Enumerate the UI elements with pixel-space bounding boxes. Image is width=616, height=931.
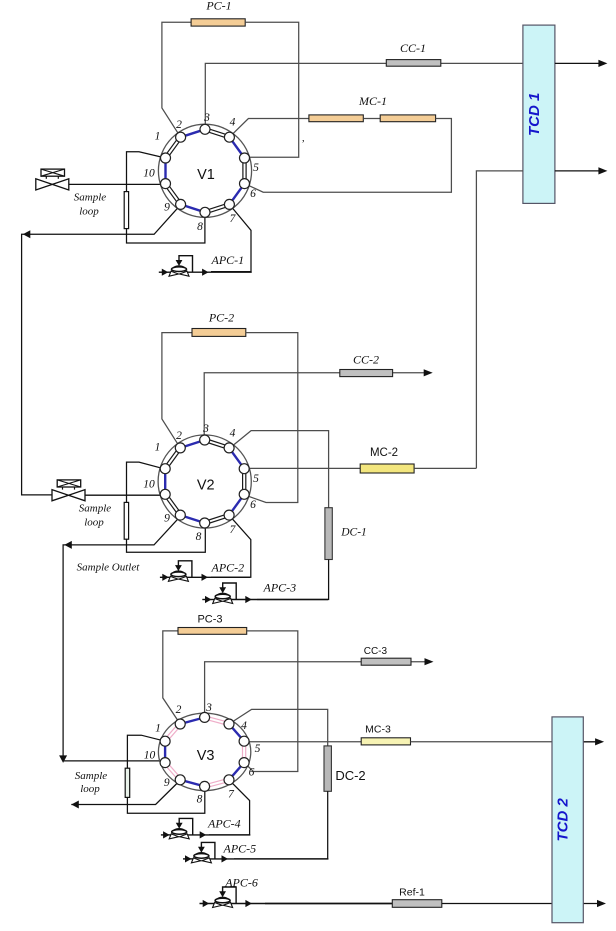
- valve V1 port 7: [224, 199, 234, 209]
- regulator APC-3 label: [263, 581, 297, 595]
- valve V2 pin number 5: [253, 473, 259, 485]
- valve V3 pin number 2: [176, 704, 182, 716]
- regulator APC-1 label: [211, 253, 245, 267]
- valve V3 pin number 8: [197, 794, 203, 806]
- regulator APC-2 outlet wire: [184, 574, 250, 581]
- valve V2 rotor groove 7-8: [204, 514, 229, 525]
- regulator APC-5 outlet wire: [207, 855, 328, 862]
- valve V1 pin number 10: [143, 168, 155, 180]
- wire port 1 to sample loop 2: [127, 462, 166, 502]
- sample loop 3 tube: [125, 768, 130, 797]
- svg-text:MC-3: MC-3: [365, 724, 391, 736]
- wire sample loop 3 to port 8: [127, 787, 204, 814]
- label PC-3: [197, 614, 222, 626]
- regulator APC-1 feedback loop: [176, 256, 193, 273]
- svg-text:10: 10: [144, 750, 156, 762]
- valve V1 label: [197, 167, 215, 183]
- arrow on V3 outlet: [71, 801, 79, 809]
- column DC-2: [324, 746, 331, 791]
- valve V2 pin number 2: [176, 430, 182, 442]
- valve V3 rotor groove 1-2: [164, 723, 182, 742]
- regulator APC-6 feedback loop: [219, 887, 236, 904]
- label Sample Outlet: [77, 562, 141, 574]
- wire APC-6 to Ref-1: [265, 903, 392, 905]
- regulator APC-3 inlet wire: [202, 596, 216, 603]
- wire MC-2 line (port 5 to riser): [246, 467, 360, 469]
- arrow on V1 outlet: [23, 230, 31, 238]
- valve V2 label: [197, 478, 215, 494]
- label TCD1: [526, 93, 543, 136]
- svg-text:CC-3: CC-3: [364, 646, 388, 657]
- valve V2 rotor groove 10-1: [164, 469, 166, 495]
- valve V1 pin number 4: [230, 117, 236, 129]
- wire sample loop 1 to port 8: [127, 213, 205, 244]
- label MC-3: [365, 724, 391, 736]
- valve V3 pin number 9: [164, 777, 170, 789]
- svg-text:Sample Outlet: Sample Outlet: [77, 562, 141, 574]
- svg-text:6: 6: [249, 767, 255, 779]
- svg-text:5: 5: [253, 473, 259, 485]
- svg-text:6: 6: [250, 188, 256, 200]
- valve V2 port 5: [239, 464, 249, 474]
- regulator APC-6 inlet wire: [200, 900, 217, 907]
- label DC-1: [340, 527, 367, 539]
- valve V2 pin number 8: [196, 531, 202, 543]
- regulator APC-3 feedback loop: [219, 583, 236, 600]
- svg-text:2: 2: [176, 704, 182, 716]
- valve V1 rotor groove 9-10: [164, 183, 182, 206]
- valve V3 port 8: [200, 781, 210, 791]
- column DC-1: [325, 508, 332, 560]
- arrow TCD1 bottom outlet: [598, 167, 607, 174]
- valve V3 rotor groove 5-6: [243, 741, 246, 762]
- wire MC-3 to TCD2: [411, 741, 553, 743]
- svg-text:Ref-1: Ref-1: [399, 887, 425, 899]
- valve V2 rotor groove 3-4: [204, 439, 229, 450]
- valve V3 rotor groove 6-7: [229, 763, 244, 780]
- wire port 10 to sample valve 1: [69, 183, 166, 185]
- label sample loop 3 line1: [75, 770, 108, 782]
- valve V3 rotor groove 4-5: [229, 724, 244, 741]
- regulator APC-5 inlet wire: [183, 855, 195, 862]
- svg-text:Sample: Sample: [79, 503, 112, 515]
- wire TCD1 top outlet: [555, 62, 604, 64]
- valve V1 pin number 9: [164, 202, 170, 214]
- wire MC-3 line (port 5 to TCD2): [246, 741, 362, 743]
- sample loop 1 tube: [124, 192, 128, 229]
- arrow down into V3 line: [59, 755, 67, 763]
- svg-text:MC-2: MC-2: [370, 447, 398, 459]
- svg-text:10: 10: [143, 168, 155, 180]
- valve V2 port 9: [175, 510, 185, 520]
- label sample loop 2 line1: [79, 503, 112, 515]
- valve V2 pin number 1: [155, 442, 161, 454]
- valve V1 rotor groove 3-4: [205, 128, 230, 139]
- svg-text:4: 4: [230, 428, 236, 440]
- svg-text:PC-2: PC-2: [208, 311, 234, 325]
- valve V1 rotor groove 1-2: [164, 136, 182, 159]
- wire port 9 outlet to V3: [63, 516, 181, 761]
- valve V3 pin number 7: [228, 789, 235, 801]
- regulator APC-2 inlet wire: [160, 574, 173, 581]
- column MC-2: [360, 464, 414, 473]
- valve V2 port 4: [224, 443, 234, 453]
- sample valve SV1 body: [36, 179, 69, 190]
- valve V3 port 9: [175, 775, 185, 785]
- valve V1 port 6: [240, 179, 250, 189]
- valve V1 port 2: [176, 132, 186, 142]
- wire port 7 to APC-2: [211, 516, 251, 578]
- svg-text:1: 1: [155, 442, 161, 454]
- valve V1 rotor groove 10-1: [164, 158, 166, 184]
- wire MC-1 middle gap: [363, 118, 380, 120]
- label CC-1: [400, 41, 426, 55]
- valve V2 port 6: [239, 489, 249, 499]
- valve V3 rotor groove 9-10: [164, 762, 182, 781]
- valve V3 body: [158, 713, 250, 790]
- valve V2 rotor groove 4-5: [229, 448, 244, 469]
- valve V2 rotor groove 2-3: [180, 440, 204, 448]
- arrow TCD2 top outlet: [595, 738, 604, 745]
- valve V2 port 2: [175, 443, 185, 453]
- valve V3 rotor groove 7-8: [204, 778, 229, 788]
- valve V1 body: [158, 124, 251, 217]
- sample valve SV2 body: [52, 490, 85, 501]
- valve V2 body: [158, 435, 251, 528]
- svg-text:DC-2: DC-2: [335, 768, 365, 783]
- regulator APC-5 feedback loop: [198, 842, 215, 859]
- svg-text:1: 1: [155, 723, 161, 735]
- valve V1 pin number 6: [250, 188, 256, 200]
- svg-text:CC-2: CC-2: [353, 353, 379, 367]
- sample loop 2 tube: [124, 502, 128, 539]
- valve V1 rotor groove 4-5: [229, 137, 244, 158]
- regulator APC-4 outlet wire: [185, 831, 250, 838]
- svg-text:V1: V1: [197, 167, 215, 183]
- valve V2 port 3: [200, 435, 210, 445]
- svg-text:V3: V3: [197, 748, 215, 764]
- regulator APC-5 label: [223, 842, 257, 856]
- column CC-2: [340, 370, 393, 377]
- svg-text:TCD 2: TCD 2: [555, 797, 572, 841]
- wire PC-3 right leg (PC-3 to port 6): [244, 631, 298, 772]
- svg-text:8: 8: [197, 794, 203, 806]
- column MC-3: [361, 738, 410, 745]
- svg-text:CC-1: CC-1: [400, 41, 426, 55]
- stray tick mark: [301, 138, 305, 150]
- label DC-2: [335, 768, 365, 783]
- wire DC-1 to APC-3: [257, 560, 329, 600]
- wire TCD1 bottom inlet (from MC-2): [476, 171, 523, 468]
- arrow TCD1 top outlet: [598, 60, 607, 67]
- valve V1 port 9: [176, 199, 186, 209]
- detector TCD1: [523, 25, 555, 203]
- wire sample loop 2 to port 8: [127, 524, 206, 553]
- valve V3 pin number 5: [255, 743, 261, 755]
- svg-text:9: 9: [164, 202, 170, 214]
- column CC-3: [361, 658, 411, 665]
- valve V1 pin number 7: [230, 213, 237, 225]
- wire port 9 outlet to V2 sample valve: [22, 205, 181, 495]
- valve V1 pin number 8: [197, 221, 203, 233]
- column PC-2: [192, 329, 246, 337]
- wire port 4 to DC-1: [229, 431, 328, 508]
- svg-text:Sample: Sample: [74, 192, 107, 204]
- valve V1 port 4: [224, 132, 234, 142]
- regulator APC-4 label: [207, 817, 241, 831]
- svg-text:MC-1: MC-1: [358, 94, 387, 108]
- valve V3 pin number 10: [144, 750, 156, 762]
- valve V1 port 10: [161, 179, 171, 189]
- svg-text:loop: loop: [79, 206, 99, 218]
- svg-text:APC-2: APC-2: [211, 560, 245, 574]
- wire port 1 to sample loop 3: [127, 735, 165, 768]
- wire MC-1 right leg (MC-1 to port 6): [245, 119, 452, 193]
- wire TCD2 bottom outlet: [583, 903, 602, 905]
- regulator APC-6 label: [224, 876, 258, 890]
- valve V2 port 8: [200, 518, 210, 528]
- detector TCD2: [552, 717, 583, 923]
- wire PC-2 left leg (port 2 to PC-2): [162, 333, 192, 449]
- svg-text:APC-3: APC-3: [263, 581, 297, 595]
- wire port 9 outlet: [71, 780, 180, 805]
- column PC-1: [191, 19, 245, 26]
- svg-text:5: 5: [255, 743, 261, 755]
- valve V1 port 5: [240, 153, 250, 163]
- regulator APC-6 valve body: [213, 897, 233, 907]
- label MC-1: [358, 94, 387, 108]
- svg-text:8: 8: [197, 221, 203, 233]
- wire CC-3 line (port 3 to arrow): [205, 662, 425, 715]
- wire CC-1 line (port 3 to TCD1): [205, 63, 523, 127]
- svg-text:5: 5: [253, 162, 259, 174]
- valve V1 pin number 2: [176, 119, 182, 131]
- label MC-2: [370, 447, 398, 459]
- valve V3 pin number 3: [205, 702, 212, 714]
- svg-text:4: 4: [241, 720, 247, 732]
- svg-text:1: 1: [155, 131, 161, 143]
- svg-text:2: 2: [176, 119, 182, 131]
- valve V3 rotor groove 10-1: [164, 741, 166, 762]
- valve V2 port 7: [224, 510, 234, 520]
- wire port 10 to sample valve 2: [85, 494, 166, 496]
- wire CC-2 line (port 3 to arrow): [204, 373, 424, 438]
- svg-text:PC-1: PC-1: [205, 0, 231, 12]
- wire TCD2 top outlet: [583, 741, 600, 743]
- svg-text:8: 8: [196, 531, 202, 543]
- regulator APC-6 outlet wire: [229, 900, 393, 907]
- valve V2 port 10: [160, 489, 170, 499]
- regulator APC-1 outlet wire: [185, 269, 252, 276]
- label CC-3: [364, 646, 388, 657]
- valve V1 rotor groove 5-6: [243, 158, 246, 184]
- wire MC-1 left leg (port 4 to MC-1): [229, 119, 309, 138]
- label PC-2: [208, 311, 234, 325]
- valve V1 port 1: [161, 153, 171, 163]
- valve V2 rotor groove 1-2: [164, 447, 182, 470]
- wire port 7 to APC-4: [209, 780, 250, 835]
- label sample loop 2 line2: [84, 517, 104, 529]
- svg-text:10: 10: [143, 479, 155, 491]
- svg-text:9: 9: [164, 513, 170, 525]
- valve V1 rotor groove 8-9: [181, 204, 205, 212]
- regulator APC-1 inlet wire: [159, 269, 173, 276]
- svg-text:4: 4: [230, 117, 236, 129]
- valve V2 rotor groove 5-6: [243, 469, 246, 495]
- svg-text:3: 3: [203, 112, 210, 124]
- arrow CC-2 outlet: [424, 369, 433, 376]
- valve V3 port 6: [239, 758, 249, 768]
- svg-text:PC-3: PC-3: [197, 614, 222, 626]
- valve V3 port 10: [160, 758, 170, 768]
- valve V1 rotor groove 6-7: [229, 184, 244, 205]
- svg-text:3: 3: [205, 702, 212, 714]
- wire PC-1 left leg (port 2 to PC-1): [162, 22, 191, 137]
- svg-text:APC-5: APC-5: [223, 842, 257, 856]
- arrow TCD2 bottom outlet: [597, 900, 606, 907]
- valve V2 pin number 7: [230, 524, 237, 536]
- valve V2 rotor groove 8-9: [180, 515, 204, 523]
- regulator APC-2 valve body: [168, 571, 188, 581]
- valve V1 port 8: [200, 207, 210, 217]
- valve V3 port 1: [160, 736, 170, 746]
- valve V3 port 4: [224, 719, 234, 729]
- svg-text:V2: V2: [197, 478, 215, 494]
- label Ref-1: [399, 887, 425, 899]
- valve V2 rotor groove 9-10: [164, 493, 182, 516]
- regulator APC-2 label: [211, 560, 245, 574]
- svg-text:loop: loop: [80, 783, 100, 795]
- valve V3 rotor groove 2-3: [180, 717, 204, 724]
- valve V3 rotor groove 3-4: [204, 716, 229, 726]
- valve V1 pin number 3: [203, 112, 210, 124]
- label sample loop 3 line2: [80, 783, 100, 795]
- wire PC-2 right leg (PC-2 to port 6): [245, 333, 298, 503]
- regulator APC-2 feedback loop: [175, 561, 192, 578]
- wire port 7 to APC-1: [211, 204, 251, 271]
- svg-text:loop: loop: [84, 517, 104, 529]
- valve V2 pin number 4: [230, 428, 236, 440]
- regulator APC-4 valve body: [169, 829, 189, 839]
- valve V1 rotor groove 2-3: [181, 129, 205, 137]
- label TCD2: [555, 797, 572, 841]
- arrow on V2 outlet: [64, 541, 72, 549]
- regulator APC-1 valve body: [169, 266, 189, 276]
- valve V3 pin number 1: [155, 723, 161, 735]
- svg-text:Sample: Sample: [75, 770, 108, 782]
- regulator APC-4 feedback loop: [176, 818, 193, 835]
- valve V3 label: [197, 748, 215, 764]
- svg-text:3: 3: [202, 423, 209, 435]
- valve V3 port 3: [200, 712, 210, 722]
- wire PC-1 right leg (PC-1 to port 5): [245, 22, 299, 157]
- svg-text:TCD 1: TCD 1: [526, 93, 543, 136]
- column MC-1 second section: [380, 115, 435, 122]
- valve V3 port 2: [175, 719, 185, 729]
- valve V2 port 1: [160, 464, 170, 474]
- wire Ref-1 to TCD2: [442, 903, 552, 905]
- regulator APC-4 inlet wire: [161, 831, 173, 838]
- valve V3 pin number 6: [249, 767, 255, 779]
- svg-text:APC-4: APC-4: [207, 817, 241, 831]
- wire port 4 to DC-2: [229, 709, 328, 746]
- valve V1 rotor groove 7-8: [205, 203, 230, 214]
- svg-text:APC-6: APC-6: [224, 876, 258, 890]
- arrow CC-3 outlet: [425, 658, 434, 665]
- valve V2 pin number 6: [250, 499, 256, 511]
- svg-text:’: ’: [301, 138, 305, 150]
- column MC-1 first section: [309, 115, 363, 122]
- wire TCD1 bottom outlet: [555, 170, 604, 172]
- valve V1 pin number 1: [155, 131, 161, 143]
- valve V2 pin number 10: [143, 479, 155, 491]
- svg-text:6: 6: [250, 499, 256, 511]
- regulator APC-3 valve body: [213, 593, 233, 603]
- wire MC-2 to TCD1 riser: [414, 467, 476, 469]
- column PC-3: [178, 628, 247, 635]
- valve V1 port 3: [200, 124, 210, 134]
- svg-text:DC-1: DC-1: [340, 527, 367, 539]
- svg-text:2: 2: [176, 430, 182, 442]
- sample valve SV1 actuator: [41, 169, 65, 179]
- valve V2 pin number 3: [202, 423, 209, 435]
- label sample loop 1 line2: [79, 206, 99, 218]
- wire port 1 to sample loop 1: [127, 152, 166, 192]
- sample valve SV2 actuator: [57, 480, 80, 490]
- label CC-2: [353, 353, 379, 367]
- valve V1 pin number 5: [253, 162, 259, 174]
- valve V3 port 7: [224, 775, 234, 785]
- regulator APC-5 valve body: [191, 853, 211, 863]
- valve V2 rotor groove 6-7: [229, 494, 244, 515]
- valve V3 rotor groove 8-9: [180, 780, 204, 787]
- valve V2 pin number 9: [164, 513, 170, 525]
- valve V3 pin number 4: [241, 720, 247, 732]
- svg-text:APC-1: APC-1: [211, 253, 245, 267]
- wire PC-3 left leg (port 2 to PC-3): [163, 631, 180, 724]
- label sample loop 1 line1: [74, 192, 107, 204]
- label PC-1: [205, 0, 231, 12]
- column Ref-1: [392, 900, 442, 908]
- column CC-1: [386, 60, 441, 67]
- valve V3 port 5: [239, 736, 249, 746]
- svg-text:9: 9: [164, 777, 170, 789]
- regulator APC-3 outlet wire: [229, 596, 328, 603]
- wire DC-2 to APC-5: [234, 791, 328, 859]
